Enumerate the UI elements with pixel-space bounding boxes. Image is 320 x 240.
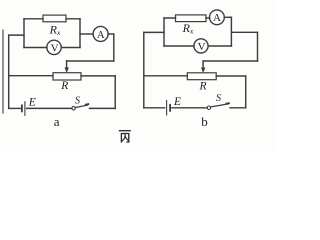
wire: right vertical b: [245, 76, 247, 108]
wire: left jog to parallel box a: [9, 34, 24, 36]
ammeter A b: [210, 10, 225, 25]
svg-text:A: A: [213, 12, 221, 24]
voltmeter V a: [47, 40, 61, 54]
resistor R_x a: [43, 15, 66, 22]
svg-text:R: R: [60, 80, 68, 92]
resistor R_x b: [176, 15, 207, 22]
wire: rheostat b right lead: [216, 75, 246, 77]
wire: wiper feed horizontal b: [203, 60, 257, 62]
switch S b: [207, 106, 210, 109]
svg-text:b: b: [201, 114, 208, 129]
rheostat R a: [53, 73, 81, 80]
wire: switch a to corner: [90, 107, 116, 109]
wire: ammeter b to corner: [224, 16, 231, 18]
wire: battery b to switch: [172, 107, 207, 109]
wire: battery a to switch: [27, 107, 72, 109]
wire: box a top segments: [24, 18, 80, 20]
wire: right vertical a: [114, 76, 116, 109]
wire: bottom a left segment: [9, 107, 21, 109]
wire: feed vertical a: [113, 34, 115, 61]
wire: box b top segments: [164, 17, 210, 19]
wire: rheostat a left lead: [9, 75, 53, 77]
wire: box b bottom segments: [164, 45, 231, 47]
svg-text:E: E: [28, 97, 36, 109]
wire: left jog to box b: [144, 31, 164, 33]
svg-text:R: R: [199, 80, 207, 92]
wire: box a right vertical: [79, 19, 81, 48]
svg-text:Rx: Rx: [182, 21, 194, 36]
voltmeter V b: [194, 39, 208, 53]
wire: outer right vertical b: [257, 32, 259, 61]
wire: ammeter a to corner: [108, 33, 114, 35]
svg-text:a: a: [54, 114, 60, 129]
wire: box a bottom segments: [24, 47, 80, 49]
wire: branch to ammeter a: [80, 33, 93, 35]
wire: wiper feed horizontal a: [67, 60, 114, 62]
wire: bottom b left segment: [144, 107, 165, 109]
svg-text:V: V: [51, 42, 59, 54]
wiper arrow b: [202, 61, 204, 68]
svg-text:Rx: Rx: [49, 22, 61, 37]
svg-text:A: A: [97, 29, 105, 41]
wire: rheostat a right lead: [81, 75, 115, 77]
rheostat R b: [187, 73, 216, 80]
svg-text:S: S: [216, 93, 221, 104]
svg-text:V: V: [198, 41, 206, 53]
ammeter A a: [93, 26, 108, 41]
switch S a: [72, 107, 75, 110]
battery E b: [166, 101, 168, 115]
wire: right jog b: [231, 31, 257, 33]
circuit b : outer left wire: [143, 32, 145, 107]
wire: box b right vertical: [230, 17, 232, 46]
wire: box b left vertical: [163, 18, 165, 46]
wire: switch b to corner: [230, 107, 246, 109]
svg-text:S: S: [75, 96, 80, 107]
svg-text:E: E: [173, 96, 181, 108]
wire: rheostat b left lead: [144, 75, 188, 77]
wire: box a left vertical: [23, 19, 25, 48]
circuit a : outer left wire: [8, 35, 10, 108]
label 丙: [120, 131, 131, 142]
battery E a: [21, 105, 23, 111]
wiper arrow a: [66, 61, 68, 68]
